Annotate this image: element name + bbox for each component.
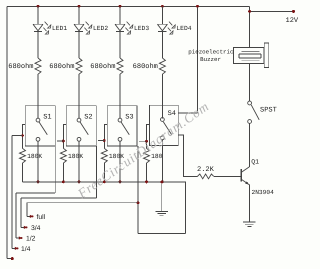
svg-text:1/4: 1/4	[21, 246, 31, 253]
wire 180K to bus	[103, 163, 105, 182]
LED LED3	[115, 22, 133, 34]
terminal node 12V	[292, 10, 295, 13]
wire switch S3 bottom to bus	[119, 141, 121, 182]
node junction bus S3 bottom	[119, 181, 122, 184]
svg-text:LED2: LED2	[93, 25, 108, 32]
wire resistor to switch S2	[78, 74, 80, 118]
left bus wire	[6, 6, 8, 258]
wire resistor to switch S1	[37, 74, 39, 118]
wire top bus to LED4	[161, 6, 163, 24]
wire bottom U vertical to bus end	[185, 182, 187, 234]
terminal arrow 1/4	[15, 247, 18, 250]
bottom-left terminal node	[11, 257, 14, 260]
wire 180K to bus	[146, 163, 148, 182]
svg-text:Buzzer: Buzzer	[200, 56, 221, 63]
svg-text:2N3904: 2N3904	[252, 189, 275, 196]
wire bracket S2 box to 180K	[63, 124, 66, 148]
wire S2 box corner descender (3/4 net)	[95, 146, 97, 198]
svg-text:LED3: LED3	[134, 25, 149, 32]
wire stub S3 to S2 box corner	[98, 140, 104, 142]
wire 1/2 net horizontal	[16, 192, 55, 194]
wire top bus to LED2	[78, 6, 80, 24]
piezoelectric buzzer BZ1	[233, 43, 268, 68]
resistor 180K R4b	[144, 148, 150, 163]
wire top bus to LED3	[119, 6, 121, 24]
wire 1/2 tap lead	[16, 237, 20, 239]
svg-text:680ohm: 680ohm	[90, 62, 115, 71]
node junction bus 180K R1b	[62, 181, 65, 184]
wire switch S4 bottom to bus	[161, 140, 163, 182]
wire top bus corner to buzzer	[249, 6, 251, 47]
wire resistor to switch S3	[119, 74, 121, 118]
svg-text:full: full	[37, 214, 46, 221]
wire 3/4 tap lead	[21, 226, 25, 228]
switch S4	[150, 105, 179, 145]
svg-text:S3: S3	[125, 113, 133, 121]
wire switch S1 bottom to bus	[37, 141, 39, 182]
node junction bus S1 bottom	[37, 181, 40, 184]
terminal arrow 1/2	[19, 236, 22, 239]
wire piezo branch from top bus	[197, 6, 199, 113]
wire LED2 to resistor	[78, 31, 80, 58]
switch S3	[107, 106, 137, 147]
wire 180K to bus	[62, 163, 64, 182]
wire full tap lead	[27, 215, 31, 217]
svg-text:S1: S1	[43, 113, 51, 121]
wire SPST to Q1 collector	[249, 123, 251, 166]
terminal arrow full	[30, 215, 33, 218]
resistor 680ohm R1	[35, 58, 41, 74]
node junction 180K top stub S3	[103, 139, 106, 142]
wire buzzer to SPST	[249, 63, 251, 101]
node junction bus S2 bottom	[78, 181, 81, 184]
LED LED4	[157, 22, 175, 34]
wire LED4 to resistor	[161, 31, 163, 58]
node junction top bus LED1	[37, 5, 40, 8]
resistor 180K R2b	[60, 148, 66, 163]
svg-text:LED1: LED1	[52, 25, 67, 32]
wire LED3 to resistor	[119, 31, 121, 58]
svg-text:680ohm: 680ohm	[133, 62, 158, 71]
wire switch S2 bottom to bus	[78, 141, 80, 182]
switch SPST SW5	[248, 101, 260, 123]
resistor 680ohm R3	[117, 58, 123, 74]
ground bus wire	[23, 181, 186, 183]
wire full net vertical	[26, 203, 28, 217]
svg-text:piezoelectric: piezoelectric	[188, 49, 234, 56]
wire 3/4 net vertical	[20, 198, 22, 227]
switch S2	[66, 106, 96, 147]
svg-text:SPST: SPST	[260, 106, 277, 114]
wire 12V input lead	[250, 10, 294, 12]
wire full net horizontal	[27, 202, 138, 204]
wire 2.2K to Q1 base	[214, 175, 241, 177]
node junction top bus LED4	[161, 5, 164, 8]
node junction top bus LED2	[78, 5, 81, 8]
node junction top bus LED3	[119, 5, 122, 8]
wire 1/2 net vertical	[15, 193, 17, 238]
wire LED1 to resistor	[37, 31, 39, 58]
wire S1 box corner descender (1/2 net)	[54, 146, 56, 193]
node junction bus ground S4	[160, 181, 163, 184]
wire bracket S1 box to 180K	[23, 124, 26, 148]
wire resistor to switch S4	[161, 74, 163, 118]
node junction bus S4 bottom	[161, 181, 164, 184]
bottom-left terminal wire	[7, 258, 12, 260]
wire 1/4 tap lead	[12, 247, 16, 249]
wire 3/4 net horizontal	[21, 197, 96, 199]
svg-text:12V: 12V	[286, 17, 299, 25]
terminal arrow 3/4	[24, 226, 27, 229]
svg-text:LED4: LED4	[176, 25, 191, 32]
node junction 12V lead	[248, 10, 251, 13]
wire piezo branch to S4 box	[178, 112, 197, 114]
svg-text:180K: 180K	[68, 153, 83, 160]
svg-text:2.2K: 2.2K	[197, 166, 215, 174]
ground symbol emitter	[248, 185, 250, 222]
transistor Q1 2N3904	[241, 167, 249, 185]
svg-text:S4: S4	[168, 110, 176, 118]
svg-text:180K: 180K	[27, 153, 42, 160]
wire bracket S4 box to 180K	[147, 124, 150, 148]
wire bottom U horizontal	[138, 232, 186, 234]
LED LED1	[33, 22, 51, 34]
svg-text:680ohm: 680ohm	[8, 62, 33, 71]
top 12V bus wire	[7, 5, 250, 7]
svg-text:680ohm: 680ohm	[49, 62, 74, 71]
wire stub S4 to S3 box corner	[139, 140, 147, 142]
node junction full net	[137, 201, 140, 204]
LED LED2	[74, 22, 92, 34]
wire S3 box corner descender (full net)	[137, 146, 139, 233]
resistor 680ohm R2	[76, 58, 82, 74]
node junction 180K top stub S1	[21, 134, 24, 137]
wire stub S1 tap	[12, 135, 23, 137]
svg-text:Q1: Q1	[251, 158, 259, 165]
resistor 180K R1b	[20, 148, 26, 163]
node junction 180K top stub S4	[145, 140, 148, 143]
wire top bus to LED1	[37, 6, 39, 24]
svg-text:3/4: 3/4	[31, 225, 41, 232]
wire bracket S3 box to 180K	[104, 124, 107, 148]
node junction top bus piezo branch	[196, 5, 199, 8]
resistor 2.2K R5	[197, 174, 213, 179]
node junction 180K top stub S2	[62, 140, 65, 143]
wire 180K to bus	[22, 163, 24, 182]
ground symbol main	[161, 182, 163, 211]
svg-text:S2: S2	[84, 113, 92, 121]
svg-text:180: 180	[151, 153, 163, 160]
switch S1	[25, 106, 55, 147]
wire S1 tap descender (1/4 net)	[11, 136, 13, 249]
wire stub S2 to S1 box corner	[57, 140, 63, 142]
svg-text:1/2: 1/2	[26, 236, 36, 243]
resistor 180K R3b	[101, 148, 107, 163]
resistor 680ohm R4	[159, 58, 165, 74]
wire S4 right stub to base network	[178, 135, 197, 176]
